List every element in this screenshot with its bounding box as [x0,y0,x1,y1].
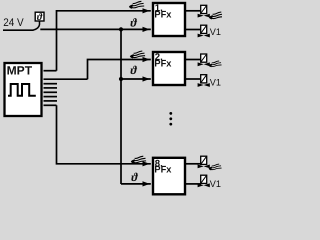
svg-text:MPT: MPT [7,63,33,77]
wire 24V rail left segment [3,29,34,31]
svg-text:PFx: PFx [154,9,172,20]
wire U4 out2 to valve V-8b [185,183,201,185]
wire theta branch to U4 input [121,183,151,185]
MPT pin 3 stub [44,83,58,85]
radio symbol at valve V-8a [209,164,222,170]
wire U1 out1 to valve V-1a [185,10,201,12]
svg-text:V1: V1 [210,78,221,89]
actuator block U1 1.PFx [153,3,185,36]
MPT pin 2 [44,78,88,80]
radio symbol at valve V-2a [209,61,222,67]
svg-text:ϑ: ϑ [130,16,137,30]
MPT pin 4 stub [44,87,58,89]
arrow into U3 pin1 [143,57,150,62]
radio symbol at valve V-1a [209,12,224,19]
svg-text:ϑ: ϑ [131,170,138,184]
svg-text:V1: V1 [210,179,221,190]
wire theta bus vertical [120,29,122,184]
valve V-1a with thermal actuator [198,5,210,17]
node theta branch to U3 [119,77,123,81]
node theta-bus junction on 24V rail [119,27,123,31]
svg-text:V1: V1 [210,27,221,38]
controller U2 MPT [5,63,42,116]
valve V-8b V1 [198,175,221,190]
radio symbol at U1 input [129,1,144,8]
wire theta branch to U3 input [121,78,151,80]
valve V-2a with thermal actuator [198,54,210,66]
valve V-8a with thermal actuator [198,156,210,168]
svg-text:ϑ: ϑ [130,63,137,77]
wire pin1 rail to U1 input [57,11,151,71]
MPT pin 5 stub [44,91,58,93]
wire U3 out1 to valve V-2a [185,59,201,61]
arrow into U3 pin2 (theta) [143,76,150,81]
actuator block U3 2.PFx [153,52,185,85]
arrow into U4 pin2 (theta) [143,181,150,186]
valve V-2b V1 [198,75,221,89]
actuator block U4 8.PFx [153,158,185,195]
arrow into U1 pin1 [143,8,150,13]
valve V-1b V1 [198,25,221,38]
wire pin8 rail to U4 input [57,105,151,164]
wire 24V rail right segment to U1 theta input [40,28,151,30]
wire U3 out2 to valve V-2b [185,78,201,80]
arrow into U4 pin1 [143,161,150,166]
arrow into U1 pin2 (theta) [143,27,150,32]
MPT pin 8 [44,104,57,106]
MPT pin 7 stub [44,100,58,102]
MPT pin 6 stub [44,96,58,98]
temperature sensor B1 (outdoor sensor) [33,12,44,30]
wire U4 out1 to valve V-8a [185,163,201,165]
svg-text:24 V: 24 V [3,17,24,29]
ellipsis between U3 and U4 [169,112,172,126]
wire U1 out2 to valve V-1b [185,29,201,31]
wire pin2 rail to U3 input [88,60,151,80]
radio symbol at U3 input [130,51,145,58]
MPT pin 1 [44,70,57,72]
square wave symbol [8,84,36,96]
svg-text:PFx: PFx [154,165,172,176]
svg-text:PFx: PFx [154,58,172,69]
radio symbol at U4 input [131,156,146,163]
